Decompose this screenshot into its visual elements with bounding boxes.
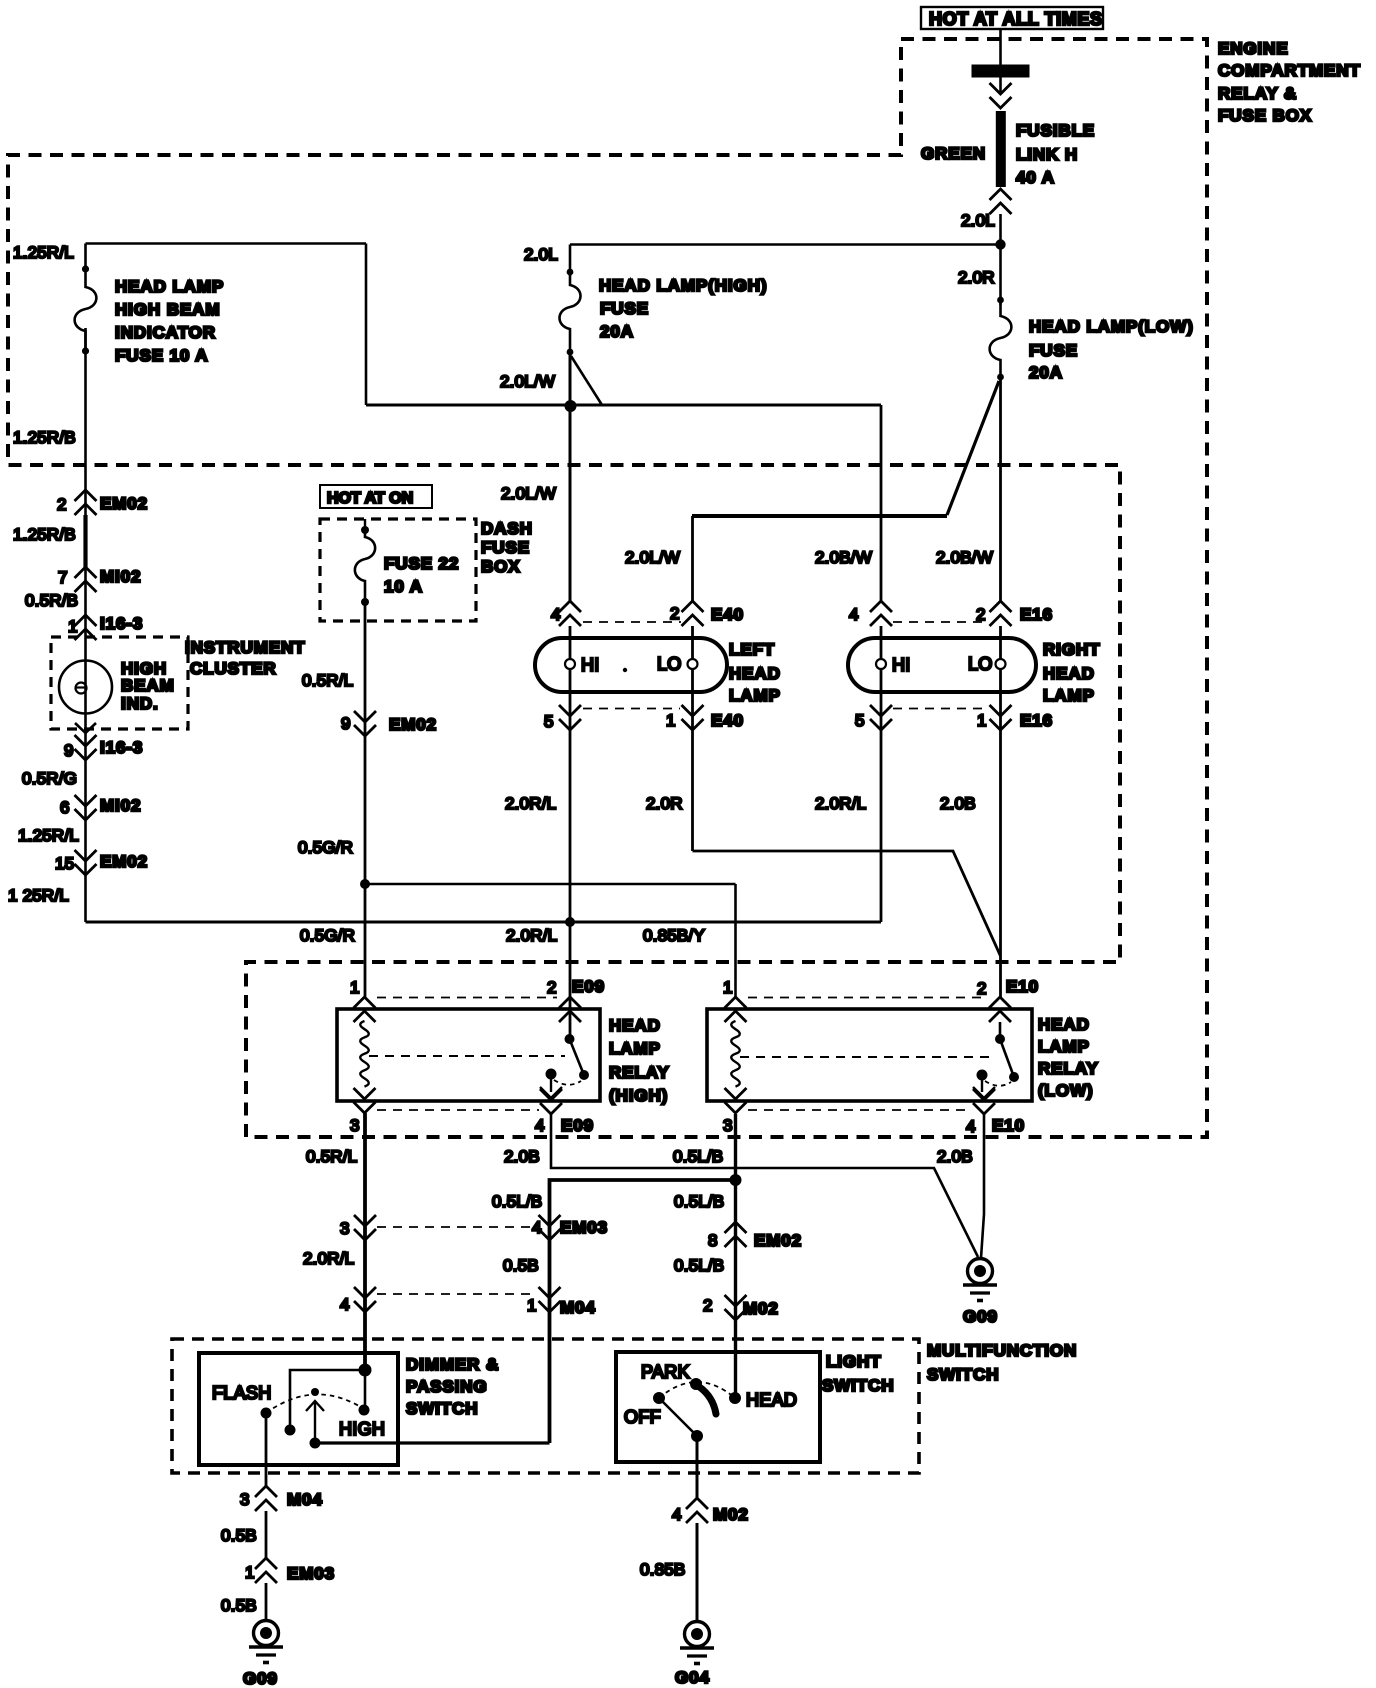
node: relay low arm end	[1009, 1072, 1019, 1082]
svg-text:SWITCH: SWITCH	[822, 1376, 894, 1395]
svg-text:MI02: MI02	[100, 567, 141, 586]
connector pin 2 chevrons E10	[989, 997, 1011, 1022]
svg-text:FUSE: FUSE	[481, 538, 530, 557]
connector 2 E16 chevrons (right lamp LO)	[990, 601, 1012, 626]
arrow: relay low contact to pin 4	[973, 1080, 995, 1098]
svg-text:20A: 20A	[600, 322, 634, 341]
wire: FLASH contact down to 3 M04	[265, 1413, 268, 1486]
connector 7 MI02 chevrons	[75, 567, 97, 592]
connector 15 EM02 chevrons	[75, 850, 97, 875]
multifunction switch dashed outline	[172, 1339, 919, 1473]
svg-text:FUSE BOX: FUSE BOX	[1218, 106, 1312, 125]
svg-text:BEAM: BEAM	[121, 676, 175, 695]
wire: battery feed down from HOT AT ALL TIMES	[999, 29, 1002, 92]
connector pin 1 chevrons E09	[354, 997, 376, 1022]
svg-text:EM03: EM03	[560, 1218, 608, 1237]
ground G09 (dimmer side)	[249, 1621, 283, 1663]
svg-text:EM02: EM02	[100, 494, 148, 513]
connector 4 chevrons (dimmer column lower)	[354, 1287, 376, 1312]
dashed connector link E40 bottom	[583, 708, 680, 710]
svg-text:DIMMER &: DIMMER &	[406, 1355, 499, 1374]
engine compartment relay &amp; fuse box dashed outline	[8, 39, 1207, 1137]
connector 1 EM03 chevrons	[255, 1558, 277, 1583]
svg-text:HI: HI	[581, 655, 600, 675]
node: bottom of head lamp(low) fuse	[997, 374, 1004, 381]
svg-text:FLASH: FLASH	[212, 1383, 272, 1403]
svg-text:INDICATOR: INDICATOR	[115, 323, 216, 342]
switch arm: relay high	[570, 1039, 585, 1075]
svg-text:3: 3	[340, 1219, 350, 1238]
wire 2.0L: junction to head lamp(high) fuse column	[570, 243, 1001, 246]
svg-text:M04: M04	[287, 1490, 323, 1509]
svg-text:(LOW): (LOW)	[1038, 1081, 1093, 1100]
svg-text:HIGH: HIGH	[339, 1419, 385, 1439]
svg-text:2.0R/L: 2.0R/L	[815, 794, 866, 813]
wire 0.5B: dimmer wiper out to 1 M04 column	[315, 1441, 550, 1444]
svg-text:4: 4	[672, 1505, 682, 1524]
dashed link 4 to 1 M04	[377, 1293, 537, 1295]
coil: relay high	[360, 1021, 369, 1087]
connector 8 EM02 chevrons	[725, 1222, 747, 1247]
svg-text:2.0B: 2.0B	[504, 1147, 540, 1166]
node: relay low contact from pin 2	[995, 1034, 1005, 1044]
dashed connector link E40 top	[583, 621, 681, 623]
svg-text:M02: M02	[743, 1299, 779, 1318]
node: dimmer HIGH contact	[359, 1405, 370, 1416]
wire 0.85B/Y: down to low relay pin 1	[734, 884, 737, 997]
node: dimmer left contact	[285, 1425, 296, 1436]
node: dimmer wiper arc dot	[311, 1388, 319, 1396]
connector pin 3 chevrons E09	[354, 1088, 376, 1113]
connector 4 M02 chevrons	[686, 1498, 708, 1523]
svg-text:M02: M02	[713, 1505, 749, 1524]
svg-text:FUSE 10 A: FUSE 10 A	[115, 346, 208, 365]
fuse: HEAD LAMP HIGH BEAM INDICATOR FUSE 10A	[75, 244, 97, 352]
svg-text:GREEN: GREEN	[921, 144, 986, 163]
dashed connector link E16 top	[893, 621, 988, 623]
svg-text:1: 1	[723, 978, 733, 997]
node: 0.5L/B junction	[730, 1174, 742, 1186]
svg-text:HEAD LAMP(HIGH): HEAD LAMP(HIGH)	[599, 276, 767, 295]
svg-text:ENGINE: ENGINE	[1218, 39, 1289, 58]
connector 6 MI02 chevrons	[75, 795, 97, 820]
wire 0.85B: 4 M02 down to ground G04	[696, 1523, 699, 1620]
svg-text:1: 1	[68, 617, 78, 636]
svg-text:2.0B: 2.0B	[940, 794, 976, 813]
head lamp relay (LOW) box	[707, 1009, 1032, 1101]
svg-text:3: 3	[350, 1116, 360, 1135]
svg-text:0.5L/B: 0.5L/B	[673, 1147, 723, 1166]
svg-text:I16-3: I16-3	[100, 614, 143, 633]
terminal: left lamp LO pin	[688, 659, 698, 669]
svg-text:HIGH BEAM: HIGH BEAM	[115, 300, 220, 319]
svg-text:E09: E09	[561, 1116, 594, 1135]
svg-text:LAMP: LAMP	[729, 686, 781, 705]
svg-text:EM02: EM02	[100, 852, 148, 871]
connector chevrons below fusible link H	[990, 189, 1012, 214]
svg-text:LINK H: LINK H	[1016, 145, 1078, 164]
svg-text:HEAD LAMP: HEAD LAMP	[115, 277, 224, 296]
node: top of head lamp(low) fuse	[997, 297, 1004, 304]
svg-text:1: 1	[245, 1563, 255, 1582]
mark: period between HI and LO	[623, 668, 627, 672]
svg-text:2.0L/W: 2.0L/W	[500, 372, 555, 391]
fuse: HEAD LAMP(HIGH) FUSE 20A	[560, 272, 581, 352]
svg-text:IND.: IND.	[121, 694, 159, 713]
svg-text:0.5L/B: 0.5L/B	[674, 1192, 724, 1211]
svg-text:E16: E16	[1020, 711, 1053, 730]
dashed link 3 to 4 EM03	[377, 1226, 537, 1228]
node: relay high contact from pin 2	[565, 1034, 575, 1044]
svg-text:HEAD: HEAD	[729, 664, 781, 683]
wire 0.5L/B: junction across and down to dimmer feed	[550, 1180, 736, 1443]
wire 2.0B: relay low pin 4 to ground G09	[981, 1114, 984, 1258]
wire 2.0R: left lamp LO to low relay pin 2	[693, 851, 1001, 956]
svg-text:LIGHT: LIGHT	[826, 1352, 882, 1371]
svg-text:0.5R/G: 0.5R/G	[22, 769, 77, 788]
svg-text:1: 1	[977, 711, 987, 730]
svg-text:I16-3: I16-3	[100, 738, 143, 757]
svg-text:CLUSTER: CLUSTER	[190, 659, 277, 678]
svg-text:2.0R/L: 2.0R/L	[505, 794, 556, 813]
svg-text:0.5B: 0.5B	[503, 1256, 539, 1275]
wire 2.0B/W: low fuse down to right head lamp LO	[999, 377, 1002, 601]
connector chevrons above fusible link H	[990, 83, 1012, 108]
wire 2.0L/W bus: riser to right head lamp HI	[366, 404, 881, 407]
svg-text:1.25R/L: 1.25R/L	[13, 243, 74, 262]
node: relay high arm end	[579, 1070, 589, 1080]
wire: left lamp LO filament through	[691, 626, 694, 851]
svg-text:0.5B: 0.5B	[221, 1526, 257, 1545]
connector 1 M04 chevrons	[539, 1287, 561, 1312]
svg-text:2: 2	[703, 1296, 713, 1315]
wire 2.0L: fusible link to junction	[999, 214, 1002, 246]
svg-text:2.0L/W: 2.0L/W	[625, 548, 680, 567]
svg-text:PASSING: PASSING	[406, 1377, 488, 1396]
svg-text:HEAD: HEAD	[746, 1390, 797, 1410]
node: top of indicator fuse	[82, 265, 89, 272]
dashed connector link E16 bottom	[893, 708, 988, 710]
svg-text:EM02: EM02	[389, 715, 437, 734]
wire 0.5R/L: fuse 22 down to relay coil (0.5G/R below EM02)	[364, 602, 367, 997]
node: top of head lamp(high) fuse	[567, 269, 574, 276]
svg-text:LAMP: LAMP	[1043, 686, 1095, 705]
svg-text:20A: 20A	[1029, 363, 1063, 382]
wire 2.0B/W: low fuse diagonal to left lamp LO feed	[947, 381, 999, 515]
stub: relay low pin2 into contact	[999, 1022, 1002, 1039]
node: dimmer input junction	[359, 1364, 372, 1377]
svg-text:2.0R/L: 2.0R/L	[506, 926, 557, 945]
connector pin 3 chevrons E10	[725, 1088, 747, 1113]
arrow: indicator lamp exit chevron	[75, 723, 96, 733]
svg-text:0.5L/B: 0.5L/B	[674, 1256, 724, 1275]
wire: low fuse feed bus to left head lamp LO	[692, 514, 947, 518]
connector pin 2 chevrons E09	[559, 997, 581, 1022]
right head lamp outline	[848, 638, 1036, 692]
wire: right lamp LO filament through	[999, 626, 1002, 997]
connector 4 chevrons (right lamp HI)	[870, 601, 892, 626]
dashed link relay low pins 1-2	[748, 997, 986, 999]
svg-text:2.0R: 2.0R	[958, 268, 995, 287]
svg-text:3: 3	[240, 1490, 250, 1509]
svg-text:FUSE: FUSE	[600, 299, 649, 318]
svg-text:2: 2	[977, 979, 987, 998]
arrow: relay high contact to pin 4	[540, 1079, 562, 1098]
connector 1 E40 chevrons (left lamp LO out)	[682, 705, 704, 730]
svg-text:PARK: PARK	[641, 1362, 690, 1382]
svg-text:BOX: BOX	[481, 557, 521, 576]
dimmer & passing switch box	[199, 1353, 398, 1465]
svg-text:8: 8	[708, 1231, 718, 1250]
svg-text:2: 2	[57, 495, 67, 514]
wire: light switch wiper down to 4 M02	[696, 1436, 699, 1498]
wire: dimmer junction to left contact	[290, 1370, 365, 1430]
node: relay low pin-4 contact	[977, 1070, 988, 1081]
wire 1.25R/B: thick segment between EM02 and MI02	[83, 515, 87, 567]
svg-text:2.0L: 2.0L	[524, 245, 558, 264]
svg-text:0.85B: 0.85B	[640, 1560, 685, 1579]
switch arm: relay low	[1000, 1039, 1014, 1077]
svg-text:6: 6	[60, 798, 70, 817]
svg-text:LEFT: LEFT	[729, 640, 775, 659]
wire 0.5B: 1 EM03 down to ground G09	[265, 1583, 268, 1620]
svg-text:COMPARTMENT: COMPARTMENT	[1218, 61, 1361, 80]
svg-text:HEAD: HEAD	[609, 1016, 661, 1035]
svg-text:G09: G09	[963, 1307, 998, 1326]
svg-text:4: 4	[849, 605, 859, 624]
wire 2.0R: junction to head lamp(low) fuse	[999, 245, 1002, 306]
fuse: HEAD LAMP(LOW) FUSE 20A	[990, 300, 1012, 377]
dashed throw arc dimmer	[266, 1394, 364, 1413]
wire: dimmer junction down to HIGH contact	[364, 1370, 367, 1409]
dashed relay low mid line	[740, 1056, 992, 1058]
svg-text:0.5R/L: 0.5R/L	[306, 1147, 357, 1166]
svg-text:FUSE: FUSE	[1029, 341, 1078, 360]
connector pin 1 chevrons E10	[725, 997, 747, 1022]
ground G04	[680, 1622, 714, 1664]
svg-text:HI: HI	[892, 655, 911, 675]
svg-text:0.5L/B: 0.5L/B	[492, 1192, 542, 1211]
wire: left lamp LO feed down	[691, 516, 694, 601]
battery bus bar	[972, 65, 1030, 78]
connector 2 EM02 chevrons	[75, 490, 97, 515]
svg-text:5: 5	[855, 711, 865, 730]
svg-text:15: 15	[55, 854, 74, 873]
svg-text:HOT AT ON: HOT AT ON	[327, 490, 413, 507]
wire 1.25R/L: top horizontal to riser	[86, 242, 367, 245]
wire: OFF contact to wiper	[659, 1398, 697, 1436]
svg-text:0.5G/R: 0.5G/R	[300, 926, 355, 945]
svg-text:LAMP: LAMP	[1038, 1037, 1090, 1056]
node: HI bus junction at left lamp	[565, 917, 575, 927]
svg-text:0.85B/Y: 0.85B/Y	[643, 926, 705, 945]
node: bottom of head lamp(high) fuse	[567, 349, 574, 356]
svg-text:4: 4	[551, 605, 561, 624]
node: bottom of fuse 22	[361, 598, 369, 606]
svg-text:2: 2	[547, 978, 557, 997]
connector pin 4 chevrons E09	[540, 1089, 562, 1114]
svg-text:2.0B/W: 2.0B/W	[936, 548, 993, 567]
node: HOT AT ON power tag	[320, 485, 432, 508]
connector 3 M04 chevrons	[255, 1486, 277, 1511]
svg-text:2: 2	[670, 604, 680, 623]
svg-text:G04: G04	[675, 1668, 710, 1687]
svg-text:1.25R/B: 1.25R/B	[13, 525, 76, 544]
node: bottom of indicator fuse	[82, 347, 89, 354]
svg-text:HEAD LAMP(LOW): HEAD LAMP(LOW)	[1029, 317, 1194, 336]
svg-text:0.5B: 0.5B	[221, 1596, 257, 1615]
wire: riser from y244 to y405	[365, 244, 368, 406]
light switch box	[616, 1352, 820, 1462]
dashed relay high mid line	[369, 1055, 565, 1057]
terminal: right lamp HI pin	[876, 659, 886, 669]
node: dimmer wiper contact	[310, 1438, 321, 1449]
svg-text:10 A: 10 A	[384, 577, 423, 596]
wire: 2.0L corner down to high fuse	[569, 245, 572, 277]
svg-text:9: 9	[64, 741, 74, 760]
head lamp relay (HIGH) box	[337, 1009, 600, 1101]
svg-text:HOT AT ALL TIMES: HOT AT ALL TIMES	[929, 9, 1103, 29]
node: relay high pin-4 contact	[546, 1069, 557, 1080]
svg-text:3: 3	[723, 1116, 733, 1135]
svg-text:E40: E40	[711, 711, 744, 730]
wiper arrow: dimmer switch	[306, 1401, 324, 1443]
svg-text:4: 4	[966, 1117, 976, 1136]
dashed link relay low pins 3-4	[748, 1109, 971, 1111]
svg-text:0.5G/R: 0.5G/R	[298, 838, 353, 857]
connector 4 EM03 chevrons	[539, 1215, 561, 1240]
connector 2 M02 chevrons	[725, 1295, 747, 1320]
wire 2.0B/W: right lamp HI feed down from bus	[880, 405, 883, 601]
fusible link H 40A	[996, 111, 1006, 187]
svg-text:4: 4	[532, 1218, 542, 1237]
svg-text:LO: LO	[968, 654, 993, 674]
svg-text:2.0L/W: 2.0L/W	[501, 484, 556, 503]
connector 5 chevrons (right lamp HI out)	[870, 705, 892, 730]
terminal: left lamp HI pin	[565, 659, 575, 669]
node: dimmer FLASH contact	[261, 1408, 272, 1419]
connector 3 chevrons (dimmer column)	[354, 1215, 376, 1240]
svg-text:FUSE 22: FUSE 22	[384, 554, 459, 573]
svg-text:HEAD: HEAD	[1038, 1015, 1090, 1034]
svg-text:2.0R: 2.0R	[646, 794, 683, 813]
svg-text:4: 4	[535, 1116, 545, 1135]
connector 1 E16 chevrons (right lamp LO out)	[990, 705, 1012, 730]
high beam indicator lamp circle	[59, 661, 112, 714]
node: 0.5G/R junction to low relay coil	[360, 879, 370, 889]
node: light switch HEAD contact	[729, 1392, 741, 1404]
wire 1.25R/L: indicator return bus	[86, 921, 882, 924]
connector pin 4 chevrons E10	[973, 1089, 995, 1114]
connector 4 chevrons (left lamp HI)	[559, 601, 581, 626]
node: light switch OFF contact	[653, 1392, 665, 1404]
node: HOT AT ALL TIMES power tag	[921, 7, 1103, 29]
left head lamp outline	[535, 638, 727, 692]
wire 0.5B: between 3 M04 and 1 EM03	[265, 1511, 268, 1558]
svg-text:E40: E40	[711, 605, 744, 624]
node: 2.0L junction	[995, 239, 1005, 249]
dash fuse box dashed outline	[320, 519, 476, 621]
wire 0.5L/B: relay low pin 3 down to light switch	[734, 1114, 737, 1396]
svg-text:INSTRUMENT: INSTRUMENT	[185, 638, 305, 657]
svg-text:LO: LO	[657, 654, 682, 674]
wire: left lamp HI filament through	[569, 626, 572, 1039]
svg-text:RELAY: RELAY	[609, 1063, 670, 1082]
wire: high fuse diagonal to 2.0L/W bus	[571, 356, 602, 405]
svg-text:40 A: 40 A	[1016, 168, 1055, 187]
dashed throw arc relay high	[554, 1080, 581, 1085]
svg-text:RIGHT: RIGHT	[1043, 640, 1100, 659]
svg-text:1 25R/L: 1 25R/L	[8, 886, 69, 905]
svg-text:1: 1	[666, 711, 676, 730]
dashed throw arc relay low	[985, 1081, 1011, 1086]
dashed throw arc light switch	[659, 1382, 735, 1398]
high beam indicator filament	[76, 683, 87, 694]
connector 2 E40 chevrons (left lamp LO)	[682, 601, 704, 626]
svg-text:1.25R/B: 1.25R/B	[13, 428, 76, 447]
svg-text:E09: E09	[572, 977, 605, 996]
svg-text:4: 4	[340, 1295, 350, 1314]
svg-text:OFF: OFF	[624, 1407, 661, 1427]
svg-text:7: 7	[58, 568, 68, 587]
svg-text:5: 5	[544, 712, 554, 731]
dashed link relay high pins 3-4	[377, 1109, 539, 1111]
coil: relay low	[731, 1021, 740, 1087]
svg-text:1: 1	[527, 1296, 537, 1315]
svg-text:HEAD: HEAD	[1043, 664, 1095, 683]
svg-text:G09: G09	[243, 1669, 278, 1688]
svg-text:RELAY: RELAY	[1038, 1059, 1099, 1078]
svg-text:M04: M04	[560, 1298, 596, 1317]
svg-text:2.0R/L: 2.0R/L	[303, 1249, 354, 1268]
svg-text:2.0B: 2.0B	[937, 1147, 973, 1166]
svg-text:E16: E16	[1020, 605, 1053, 624]
terminal: right lamp LO pin	[996, 659, 1006, 669]
svg-text:2: 2	[976, 605, 986, 624]
svg-text:DASH: DASH	[481, 519, 533, 538]
dashed link relay high pins 1-2	[377, 997, 557, 999]
node: top of fuse 22	[361, 526, 369, 534]
svg-text:E10: E10	[992, 1116, 1025, 1135]
svg-text:SWITCH: SWITCH	[406, 1399, 478, 1418]
svg-text:1: 1	[350, 978, 360, 997]
svg-text:1.25R/L: 1.25R/L	[18, 826, 79, 845]
connector 1 I16-3 chevrons	[75, 615, 97, 640]
svg-text:RELAY &: RELAY &	[1218, 84, 1297, 103]
svg-text:MI02: MI02	[100, 796, 141, 815]
svg-text:2.0B/W: 2.0B/W	[815, 548, 872, 567]
wire 0.5R/L: relay high pin 3 down to dimmer switch	[363, 1113, 367, 1370]
connector 9 I16-3 chevrons	[75, 735, 97, 760]
wire 0.85B/Y: junction across to low relay coil	[365, 883, 736, 886]
wire 1.25R/B: indicator fuse down to instrument cluster	[84, 328, 87, 922]
node: light switch wiper contact	[691, 1430, 703, 1442]
svg-text:0.5R/L: 0.5R/L	[302, 671, 353, 690]
ground G09 (relay side)	[963, 1259, 997, 1301]
wire 2.0B: relay high pin 4 to ground G09	[551, 1114, 978, 1257]
svg-text:2.0L: 2.0L	[961, 211, 995, 230]
lever: light switch (thick)	[698, 1386, 716, 1414]
svg-text:FUSIBLE: FUSIBLE	[1016, 121, 1095, 140]
svg-text:(HIGH): (HIGH)	[609, 1086, 668, 1105]
wire 2.0L/W: high fuse straight down to junction and left lamp HI	[569, 352, 572, 601]
connector 5 chevrons (left lamp HI out)	[559, 705, 581, 730]
svg-text:9: 9	[341, 714, 351, 733]
svg-text:EM03: EM03	[287, 1564, 335, 1583]
svg-text:EM02: EM02	[754, 1231, 802, 1250]
wire: stub into fuse 22	[364, 519, 366, 531]
svg-text:SWITCH: SWITCH	[927, 1365, 999, 1384]
